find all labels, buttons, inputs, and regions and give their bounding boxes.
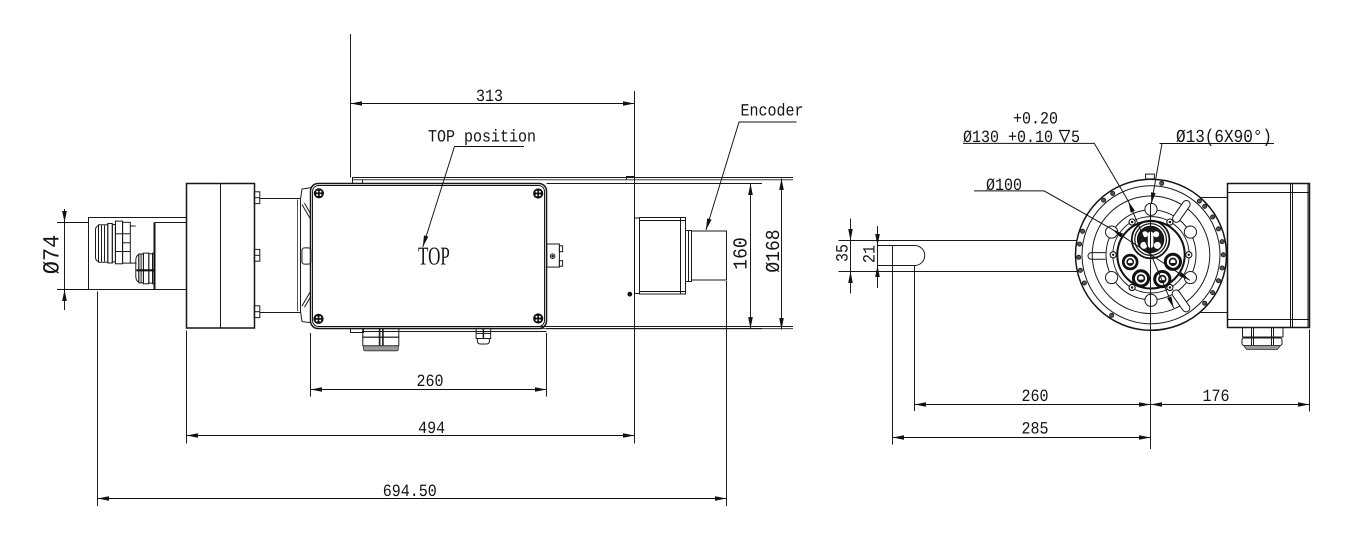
svg-text:5: 5 — [1071, 128, 1080, 148]
svg-text:260: 260 — [416, 372, 443, 392]
svg-text:TOP position: TOP position — [428, 128, 536, 148]
svg-text:313: 313 — [476, 87, 503, 107]
svg-text:21: 21 — [861, 245, 881, 263]
svg-text:Ø74: Ø74 — [40, 235, 66, 275]
svg-text:176: 176 — [1202, 387, 1229, 407]
svg-text:160: 160 — [731, 237, 753, 269]
svg-text:694.50: 694.50 — [383, 482, 437, 502]
svg-text:494: 494 — [418, 419, 445, 439]
svg-text:TOP: TOP — [418, 243, 450, 271]
svg-text:Encoder: Encoder — [741, 102, 804, 122]
svg-text:Ø168: Ø168 — [764, 229, 786, 272]
svg-text:285: 285 — [1021, 420, 1048, 440]
svg-text:35: 35 — [834, 244, 854, 262]
svg-text:Ø130 +0.10: Ø130 +0.10 — [963, 128, 1053, 148]
svg-text:Ø100: Ø100 — [986, 176, 1022, 196]
svg-text:260: 260 — [1021, 387, 1048, 407]
svg-text:Ø13(6X90°): Ø13(6X90°) — [1176, 127, 1272, 148]
svg-text:+0.20: +0.20 — [1013, 110, 1058, 130]
